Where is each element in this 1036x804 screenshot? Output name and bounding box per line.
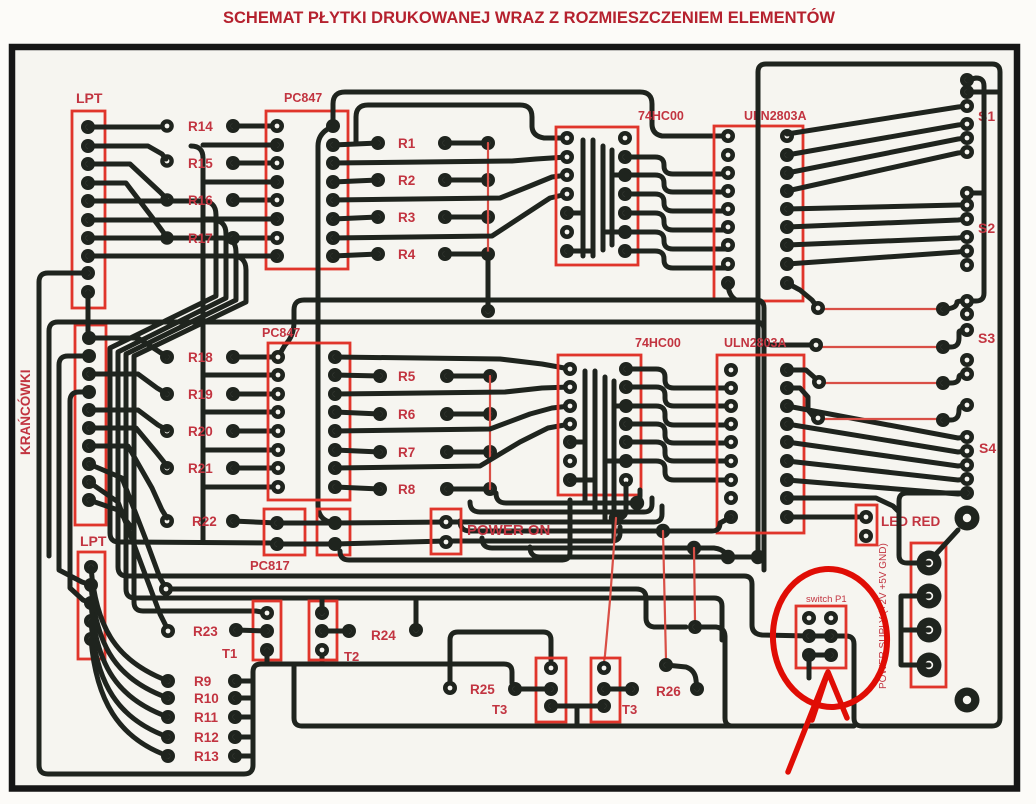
labels layer xyxy=(188,119,681,764)
svg-text:R25: R25 xyxy=(470,682,495,697)
wire common bus vertical x203 xyxy=(191,145,278,542)
wire 74HC00b to ULN2803Ab xyxy=(626,369,731,388)
wire LPT pin4 to R17 xyxy=(88,183,166,236)
optocoupler PC817 box B xyxy=(317,509,350,555)
wire PC847 r7 to 74HC00 xyxy=(333,194,567,238)
wire T2 emitter down xyxy=(320,650,325,664)
wire PC847 to R3 xyxy=(333,217,378,219)
connector LPT box 3 xyxy=(78,552,105,659)
svg-text:POWER ON: POWER ON xyxy=(467,522,550,539)
optocoupler PC847 label (top) xyxy=(284,91,322,105)
wire 74HC00b inner bus xyxy=(570,371,626,541)
wire LPT1-LPT2 link xyxy=(86,292,91,338)
wire top bus h2 xyxy=(356,105,567,143)
svg-text:R13: R13 xyxy=(194,749,219,764)
IC 74HC00 label (mid) xyxy=(635,336,681,350)
resistor R24 xyxy=(342,623,423,638)
wire PC847b r1 to 74HC00b xyxy=(335,357,570,369)
wire LPT pin7 bundle xyxy=(88,238,722,640)
wire R4 column to via xyxy=(486,254,491,311)
resistor R10 xyxy=(161,691,253,705)
svg-text:PC847: PC847 xyxy=(262,326,300,340)
wire LPT2 pin3 to R19 xyxy=(89,374,167,394)
svg-text:R16: R16 xyxy=(188,193,213,208)
svg-text:PC817: PC817 xyxy=(250,558,290,573)
resistor R15 xyxy=(160,154,240,170)
resistor R14 xyxy=(160,119,240,133)
wire PC847 to R4 xyxy=(333,254,378,256)
transistor T3 box B xyxy=(591,658,620,722)
transistor T2 label xyxy=(344,649,359,664)
wire POWER ON trace a xyxy=(446,506,662,522)
resistor R18 xyxy=(160,350,278,364)
wire LPT3 pin3 to R11 xyxy=(91,603,168,717)
wire 74HC00b to ULN2803Ab xyxy=(626,406,731,425)
optocoupler PC817 pads B xyxy=(328,516,342,551)
connector S3 pads xyxy=(960,294,974,412)
wire PC817 row1 xyxy=(277,521,335,526)
resistor R16 xyxy=(160,193,240,207)
svg-text:T3: T3 xyxy=(492,702,507,717)
wire ULN r8 to S2 xyxy=(787,251,967,264)
wire ULN r4 to S1 xyxy=(787,152,967,191)
resistor R5 xyxy=(373,369,497,383)
transistor T2 box xyxy=(309,601,337,660)
wire T1 emitter down xyxy=(265,650,270,664)
wire R14 to PC847 xyxy=(233,124,277,129)
resistor R20 xyxy=(160,424,278,438)
resistor R11 xyxy=(161,710,253,724)
wire ULN2 to LED xyxy=(787,515,858,520)
svg-text:R24: R24 xyxy=(371,628,396,643)
IC ULN2803A pads left column 2 xyxy=(724,363,738,524)
label KRAŃCÓWKI xyxy=(18,370,33,456)
connector POWER ON label xyxy=(467,522,550,539)
wire LPT2 pin6 to R21 xyxy=(89,428,167,467)
resistor R6 xyxy=(373,407,497,421)
optocoupler PC817 pads A xyxy=(270,516,284,551)
svg-text:R11: R11 xyxy=(194,710,219,725)
wire PC847 to R1 xyxy=(333,143,378,145)
optocoupler PC847 label (mid) xyxy=(262,326,300,340)
wire 74HC00 to ULN2803A xyxy=(625,175,728,192)
connector S1 label xyxy=(978,108,995,124)
svg-text:R8: R8 xyxy=(398,482,416,497)
svg-text:PC847: PC847 xyxy=(284,91,322,105)
resistor R26 xyxy=(625,682,704,696)
red link R5-R8 column xyxy=(489,376,491,489)
resistor R7 xyxy=(373,445,497,459)
LED RED label xyxy=(881,514,941,529)
resistor R22 xyxy=(160,514,277,528)
wire R15 to PC847 xyxy=(233,161,277,166)
connector S4 pads xyxy=(960,430,974,500)
wire LPT2 pin9 down xyxy=(89,482,168,630)
transistor T3 box A xyxy=(536,658,566,722)
wire PC847 inner drop xyxy=(318,126,335,523)
svg-text:R26: R26 xyxy=(656,684,681,699)
resistor R13 xyxy=(161,749,253,763)
IC 74HC00 pads right column xyxy=(618,131,632,258)
wire bottom bus left corner xyxy=(294,664,302,726)
junction dot e xyxy=(721,550,735,564)
switch P1 box xyxy=(796,606,846,668)
wire ULN2 r5 to S4 xyxy=(787,442,967,466)
junction dot b xyxy=(630,496,644,510)
wire R23 to T1 xyxy=(236,630,267,631)
svg-text:R23: R23 xyxy=(193,624,218,639)
transistor T2 pads xyxy=(315,606,329,657)
wire PC847b to R6 xyxy=(335,412,380,414)
wire switch row2 bar xyxy=(809,634,831,639)
wire PC847b r5 to 74HC00b xyxy=(335,406,570,431)
wire ULN2 r8 right xyxy=(787,498,899,512)
wire ULN r3 to S1 xyxy=(787,138,967,173)
wire LPT3 pin5 to R13 xyxy=(91,639,168,756)
junction dot d xyxy=(687,541,701,555)
mount pad bottom xyxy=(955,688,980,713)
wire 74HC00 to ULN2803A xyxy=(625,232,728,249)
optocoupler PC847 pads right column xyxy=(326,119,340,263)
switch P1 label xyxy=(806,594,847,605)
wire R24 up to bus xyxy=(414,598,419,630)
connector S4 label xyxy=(979,440,996,456)
wire ULN2 r7 to S4 xyxy=(787,480,967,494)
connector POWER ON pads xyxy=(439,515,453,549)
resistor R12 xyxy=(161,730,253,744)
wire T3 emitters join xyxy=(551,706,604,726)
svg-text:R22: R22 xyxy=(192,514,217,529)
wire mid bus y322 xyxy=(49,322,764,556)
wire mid bus y300 xyxy=(278,300,764,570)
connector LPT label (top) xyxy=(76,90,103,106)
wire R25 to T3a xyxy=(515,687,551,692)
connector LPT box 1 xyxy=(72,111,105,308)
wire S3 link b xyxy=(943,330,967,347)
junction dot a xyxy=(609,511,623,525)
IC 74HC00 pads left column 2 xyxy=(563,362,577,487)
transistor T3 label A xyxy=(492,702,507,717)
wire PC817 to POWER ON row2 xyxy=(335,541,446,544)
wire bottom bus y726 xyxy=(302,724,854,729)
resistor R3 xyxy=(371,210,495,224)
wire 74HC00b to ULN2803Ab xyxy=(626,387,731,406)
wire bus y512 xyxy=(470,498,652,512)
red arrow xyxy=(788,672,847,772)
connector POWER ON box xyxy=(431,509,461,554)
red jumper S3 b xyxy=(816,346,943,348)
wire left riser 3 xyxy=(70,392,91,603)
svg-text:KRAŃCÓWKI: KRAŃCÓWKI xyxy=(18,370,33,456)
IC 74HC00 pads right column 2 xyxy=(619,362,633,487)
wire PC847b to R7 xyxy=(335,450,380,452)
wire power pad1 riser xyxy=(899,493,967,563)
wire 74HC00 to ULN2803A xyxy=(625,213,728,230)
wire 74HC00 to ULN2803A xyxy=(625,251,728,268)
junction dot f xyxy=(751,550,765,564)
wire PC847 to R2 xyxy=(333,180,378,182)
svg-text:R9: R9 xyxy=(194,674,211,689)
resistor R4 xyxy=(371,247,495,261)
optocoupler PC847 box 2 xyxy=(268,343,350,500)
wire LPT pin6 bundle xyxy=(88,220,809,636)
IC 74HC00 box 1 xyxy=(556,127,638,265)
wire S3 link c xyxy=(943,374,967,383)
wire R26 via curve xyxy=(666,665,697,689)
wire main power loop xyxy=(758,64,1000,726)
title text xyxy=(223,8,835,27)
optocoupler PC847 pads right column 2 xyxy=(328,350,342,494)
transistor T3 pads B xyxy=(597,661,611,713)
transistor T1 pads xyxy=(260,606,274,657)
svg-text:R15: R15 xyxy=(188,156,213,171)
svg-text:T3: T3 xyxy=(622,702,637,717)
wire ULN r7 to S2 xyxy=(787,237,967,245)
connector LPT pads column 3 xyxy=(84,560,98,646)
wire 74HC00 inner bus xyxy=(567,140,625,256)
svg-text:R10: R10 xyxy=(194,691,219,706)
switch P1 pads xyxy=(802,611,838,662)
wire LPT pin8 bundle xyxy=(88,256,267,613)
IC ULN2803A label (mid) xyxy=(724,336,787,350)
wire PC847 r3 to 74HC00 xyxy=(333,157,567,163)
wire PC847b to R8 xyxy=(335,487,380,489)
wire S1 pin1 riser xyxy=(967,78,984,301)
wire PC817 to POWER ON row1 xyxy=(335,522,446,523)
wire ULN r6 to S2 xyxy=(787,219,967,227)
wire LPT pin3 to R16 xyxy=(88,164,166,198)
transistor T3 pads A xyxy=(544,661,558,713)
wire LPT pin2 to R15 xyxy=(88,146,166,159)
wire power pads link xyxy=(901,596,929,665)
svg-text:R14: R14 xyxy=(188,119,213,134)
wire PC847b r3 to 74HC00b xyxy=(335,387,570,394)
IC ULN2803A box 2 xyxy=(717,355,804,533)
via pad mid-bottom xyxy=(688,620,702,634)
wire R25 left riser xyxy=(450,632,551,682)
svg-text:R6: R6 xyxy=(398,407,416,422)
wire 74HC00b to ULN2803Ab xyxy=(626,424,731,443)
red jumper S3 d xyxy=(818,418,943,420)
LED RED pads xyxy=(859,510,873,543)
IC ULN2803A pads left column xyxy=(721,129,735,290)
wire S2 pin1 stub xyxy=(967,191,984,196)
IC ULN2803A label (top) xyxy=(744,109,807,123)
svg-text:switch P1: switch P1 xyxy=(806,594,847,605)
resistor R21 xyxy=(160,461,278,475)
wire PC847 r5 to 74HC00 xyxy=(333,175,567,200)
connector S1 pads xyxy=(960,73,974,159)
svg-text:R5: R5 xyxy=(398,369,416,384)
IC ULN2803A pads right column 2 xyxy=(780,363,794,524)
svg-text:LED RED: LED RED xyxy=(881,514,941,529)
via pad R26 top xyxy=(659,658,673,672)
optocoupler PC847 box 1 xyxy=(266,111,348,269)
wire bus y548 xyxy=(482,538,728,557)
wire LPT pin9 to left bus xyxy=(39,273,512,774)
svg-text:R7: R7 xyxy=(398,445,415,460)
svg-text:S3: S3 xyxy=(978,330,995,346)
wire bus y561 xyxy=(562,500,570,560)
wire top bus h1 xyxy=(333,92,728,136)
resistor R2 xyxy=(371,173,495,187)
svg-text:74HC00: 74HC00 xyxy=(638,109,684,123)
wire 74HC00b to ULN2803Ab xyxy=(626,442,731,461)
wire ULN2 r3 to S4 xyxy=(787,406,967,438)
wire ULN r2 to S1 xyxy=(787,124,967,155)
wire POWER ON trace b xyxy=(446,527,620,541)
resistor R19 xyxy=(160,387,278,401)
red jumper S3 a xyxy=(818,308,943,310)
svg-text:R20: R20 xyxy=(188,424,213,439)
red drop to T3b xyxy=(604,518,616,662)
svg-text:T2: T2 xyxy=(344,649,359,664)
wire T3b to R26 xyxy=(604,687,632,692)
wire LPT2 pin5 to R20 xyxy=(89,410,167,430)
red highlight circle xyxy=(768,565,891,711)
resistor R25 xyxy=(443,681,522,696)
red drop to via xyxy=(694,548,695,621)
optocoupler PC847 pads left column 2 xyxy=(271,350,285,494)
wire LPT2 pin1 to R18 xyxy=(89,338,167,357)
svg-text:R3: R3 xyxy=(398,210,416,225)
wire 74HC00b to ULN2803Ab xyxy=(626,461,731,480)
optocoupler PC847 pads left column xyxy=(270,119,284,263)
wire left riser 2 xyxy=(59,356,91,585)
wire R17 to PC847 xyxy=(233,236,277,241)
wire ULN r1 to S1 xyxy=(787,106,967,134)
svg-text:SCHEMAT PŁYTKI DRUKOWANEJ WRAZ: SCHEMAT PŁYTKI DRUKOWANEJ WRAZ Z ROZMIES… xyxy=(223,8,835,27)
wire PC817 row2 xyxy=(277,542,335,547)
svg-text:R1: R1 xyxy=(398,136,416,151)
resistor R8 xyxy=(373,482,497,496)
wire bus y560b xyxy=(340,551,562,560)
connector S2 label xyxy=(978,220,995,236)
via pad below R4 xyxy=(481,304,495,318)
transistor T1 label xyxy=(222,646,237,661)
svg-text:S4: S4 xyxy=(979,440,996,456)
wire bus y531 xyxy=(460,517,731,531)
connector LPT pads column 2 xyxy=(82,331,96,507)
resistor R23 xyxy=(161,623,243,638)
wire switch row3 stub xyxy=(807,655,812,678)
wire via to bus726 xyxy=(695,627,733,726)
resistor R17 xyxy=(160,231,240,245)
svg-text:ULN2803A: ULN2803A xyxy=(744,109,807,123)
wire S1 pin2 stub xyxy=(967,90,999,95)
jumper pads left xyxy=(809,301,826,425)
svg-text:T1: T1 xyxy=(222,646,237,661)
wire ULN pin9 down xyxy=(728,283,736,300)
wire R16 to PC847 xyxy=(233,198,277,203)
wire bus y503 xyxy=(496,490,640,503)
optocoupler PC817 box A xyxy=(264,509,305,555)
wire 74HC00 to ULN2803A xyxy=(625,157,728,174)
svg-text:R21: R21 xyxy=(188,461,213,476)
label POWER SUPLY xyxy=(878,543,889,689)
connector LPT box 2 xyxy=(75,325,106,525)
connector S2 pads xyxy=(960,186,974,272)
svg-text:R17: R17 xyxy=(188,231,213,246)
connector power pads xyxy=(917,551,942,678)
wire LPT2 pin10 stub xyxy=(89,500,132,528)
wire bus y557 xyxy=(530,547,758,557)
wire PC847b r7 to 74HC00b xyxy=(335,424,570,468)
wire ULN r9 to S3 feed xyxy=(787,283,818,308)
wire S3 link a xyxy=(943,301,967,309)
optocoupler PC817 label xyxy=(250,558,290,573)
red jumper S3 c xyxy=(819,382,943,384)
wire LPT pin1 to R14 xyxy=(88,125,160,130)
svg-text:R4: R4 xyxy=(398,247,416,262)
junction dot c xyxy=(656,524,670,538)
wire 74HC00 to ULN2803A xyxy=(625,194,728,211)
red link R1-R4 column xyxy=(487,143,489,311)
wire LPT3 pin4 to R12 xyxy=(91,621,168,737)
svg-text:R12: R12 xyxy=(194,730,219,745)
LED RED box xyxy=(856,505,877,545)
connector LPT pads column 1 xyxy=(81,120,95,299)
svg-text:R2: R2 xyxy=(398,173,415,188)
wire S3 feed b xyxy=(764,337,810,345)
wire T2 base link xyxy=(322,629,349,634)
wire LPT2 pin7 to R22 xyxy=(89,446,167,518)
IC ULN2803A pads right column xyxy=(780,129,794,290)
wire PC847b to R5 xyxy=(335,375,380,376)
wire LPT3 pin1 to R9 xyxy=(91,567,168,681)
wire ULN r5 to S2 xyxy=(787,205,967,209)
transistor T3 label B xyxy=(622,702,637,717)
resistor R9 xyxy=(161,674,253,688)
via pad long feed xyxy=(159,582,173,596)
jumper pads right xyxy=(936,302,950,427)
wire switch row3 bar xyxy=(809,653,831,658)
connector LPT label (bottom) xyxy=(80,533,107,549)
wire 74HC00b drop xyxy=(618,484,626,518)
mount pad top xyxy=(955,506,980,531)
transistor T1 box xyxy=(253,601,281,660)
resistor R1 xyxy=(371,136,495,150)
svg-text:S2: S2 xyxy=(978,220,995,236)
IC 74HC00 box 2 xyxy=(558,355,641,495)
svg-text:ULN2803A: ULN2803A xyxy=(724,336,787,350)
red drop to R26 via xyxy=(663,531,666,660)
wire ULN2 r4 to S4 xyxy=(787,424,967,452)
connector S3 label xyxy=(978,330,995,346)
svg-text:R18: R18 xyxy=(188,350,213,365)
svg-text:74HC00: 74HC00 xyxy=(635,336,681,350)
svg-text:LPT: LPT xyxy=(76,90,103,106)
svg-text:R19: R19 xyxy=(188,387,213,402)
svg-text:LPT: LPT xyxy=(80,533,107,549)
wire ULN2 r2 to S3 feed xyxy=(787,388,818,418)
wire ULN2 r6 to S4 xyxy=(787,461,967,480)
wire T2 collector up xyxy=(320,598,325,613)
wire LPT2 pin8 down xyxy=(89,464,166,588)
wire bus y586 xyxy=(173,589,686,627)
wire power to big pad xyxy=(936,530,958,554)
wire LPT pin5 bundle xyxy=(88,201,277,543)
IC 74HC00 pads left column xyxy=(560,131,574,258)
wire ULN2 r1 to S3 feed xyxy=(787,370,819,382)
wire S3 link d xyxy=(943,405,967,420)
svg-text:S1: S1 xyxy=(978,108,995,124)
connector power box xyxy=(911,543,946,687)
IC 74HC00 label (top) xyxy=(638,109,684,123)
wire LPT3 pin2 to R10 xyxy=(91,585,168,698)
IC ULN2803A box 1 xyxy=(714,126,803,301)
